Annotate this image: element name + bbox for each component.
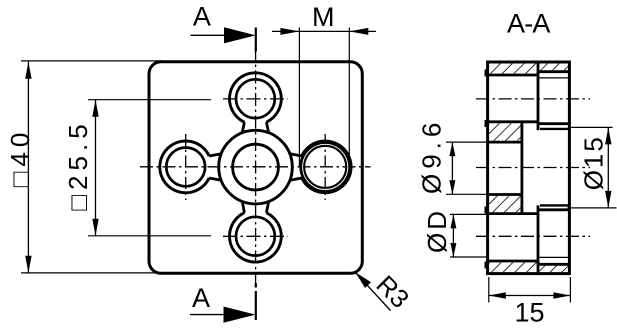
svg-text:□40: □40: [5, 128, 35, 188]
svg-text:15: 15: [514, 297, 544, 327]
svg-text:A-A: A-A: [507, 9, 550, 39]
svg-text:ØD: ØD: [422, 208, 452, 253]
svg-text:M: M: [312, 2, 335, 32]
svg-text:A: A: [193, 1, 211, 31]
svg-text:Ø9.6: Ø9.6: [417, 118, 447, 194]
svg-text:A: A: [192, 283, 210, 313]
svg-text:□25.5: □25.5: [63, 119, 93, 210]
svg-text:Ø15: Ø15: [579, 135, 609, 190]
